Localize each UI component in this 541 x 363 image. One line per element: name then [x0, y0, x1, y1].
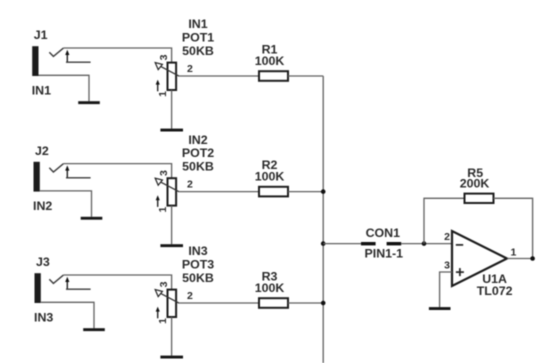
svg-text:50KB: 50KB [182, 271, 214, 285]
svg-text:J1: J1 [34, 28, 48, 42]
svg-text:1: 1 [511, 246, 517, 258]
svg-text:1: 1 [157, 207, 169, 213]
svg-text:PIN1-1: PIN1-1 [365, 246, 404, 260]
svg-text:J2: J2 [35, 144, 49, 158]
svg-text:CON1: CON1 [366, 226, 401, 240]
svg-text:3: 3 [158, 281, 170, 287]
svg-text:100K: 100K [255, 54, 285, 68]
svg-text:POT2: POT2 [182, 146, 214, 160]
svg-text:200K: 200K [460, 177, 490, 191]
svg-text:IN2: IN2 [188, 133, 207, 147]
svg-text:POT3: POT3 [182, 258, 214, 272]
svg-text:IN3: IN3 [188, 244, 207, 258]
svg-text:IN3: IN3 [34, 310, 53, 324]
svg-text:1: 1 [157, 91, 169, 97]
svg-text:IN1: IN1 [188, 17, 207, 31]
svg-text:2: 2 [187, 290, 193, 302]
svg-text:3: 3 [158, 54, 170, 60]
svg-text:2: 2 [444, 231, 450, 243]
svg-text:100K: 100K [255, 281, 285, 295]
svg-text:2: 2 [187, 179, 193, 191]
svg-text:100K: 100K [255, 170, 285, 184]
svg-text:J3: J3 [36, 255, 50, 269]
svg-text:IN2: IN2 [33, 199, 52, 213]
svg-text:2: 2 [187, 63, 193, 75]
svg-text:POT1: POT1 [182, 31, 214, 45]
svg-text:3: 3 [444, 260, 450, 272]
svg-text:50KB: 50KB [182, 44, 214, 58]
svg-text:TL072: TL072 [477, 284, 513, 298]
svg-text:50KB: 50KB [182, 159, 214, 173]
svg-text:IN1: IN1 [32, 83, 51, 97]
svg-text:1: 1 [157, 318, 169, 324]
svg-text:3: 3 [158, 170, 170, 176]
